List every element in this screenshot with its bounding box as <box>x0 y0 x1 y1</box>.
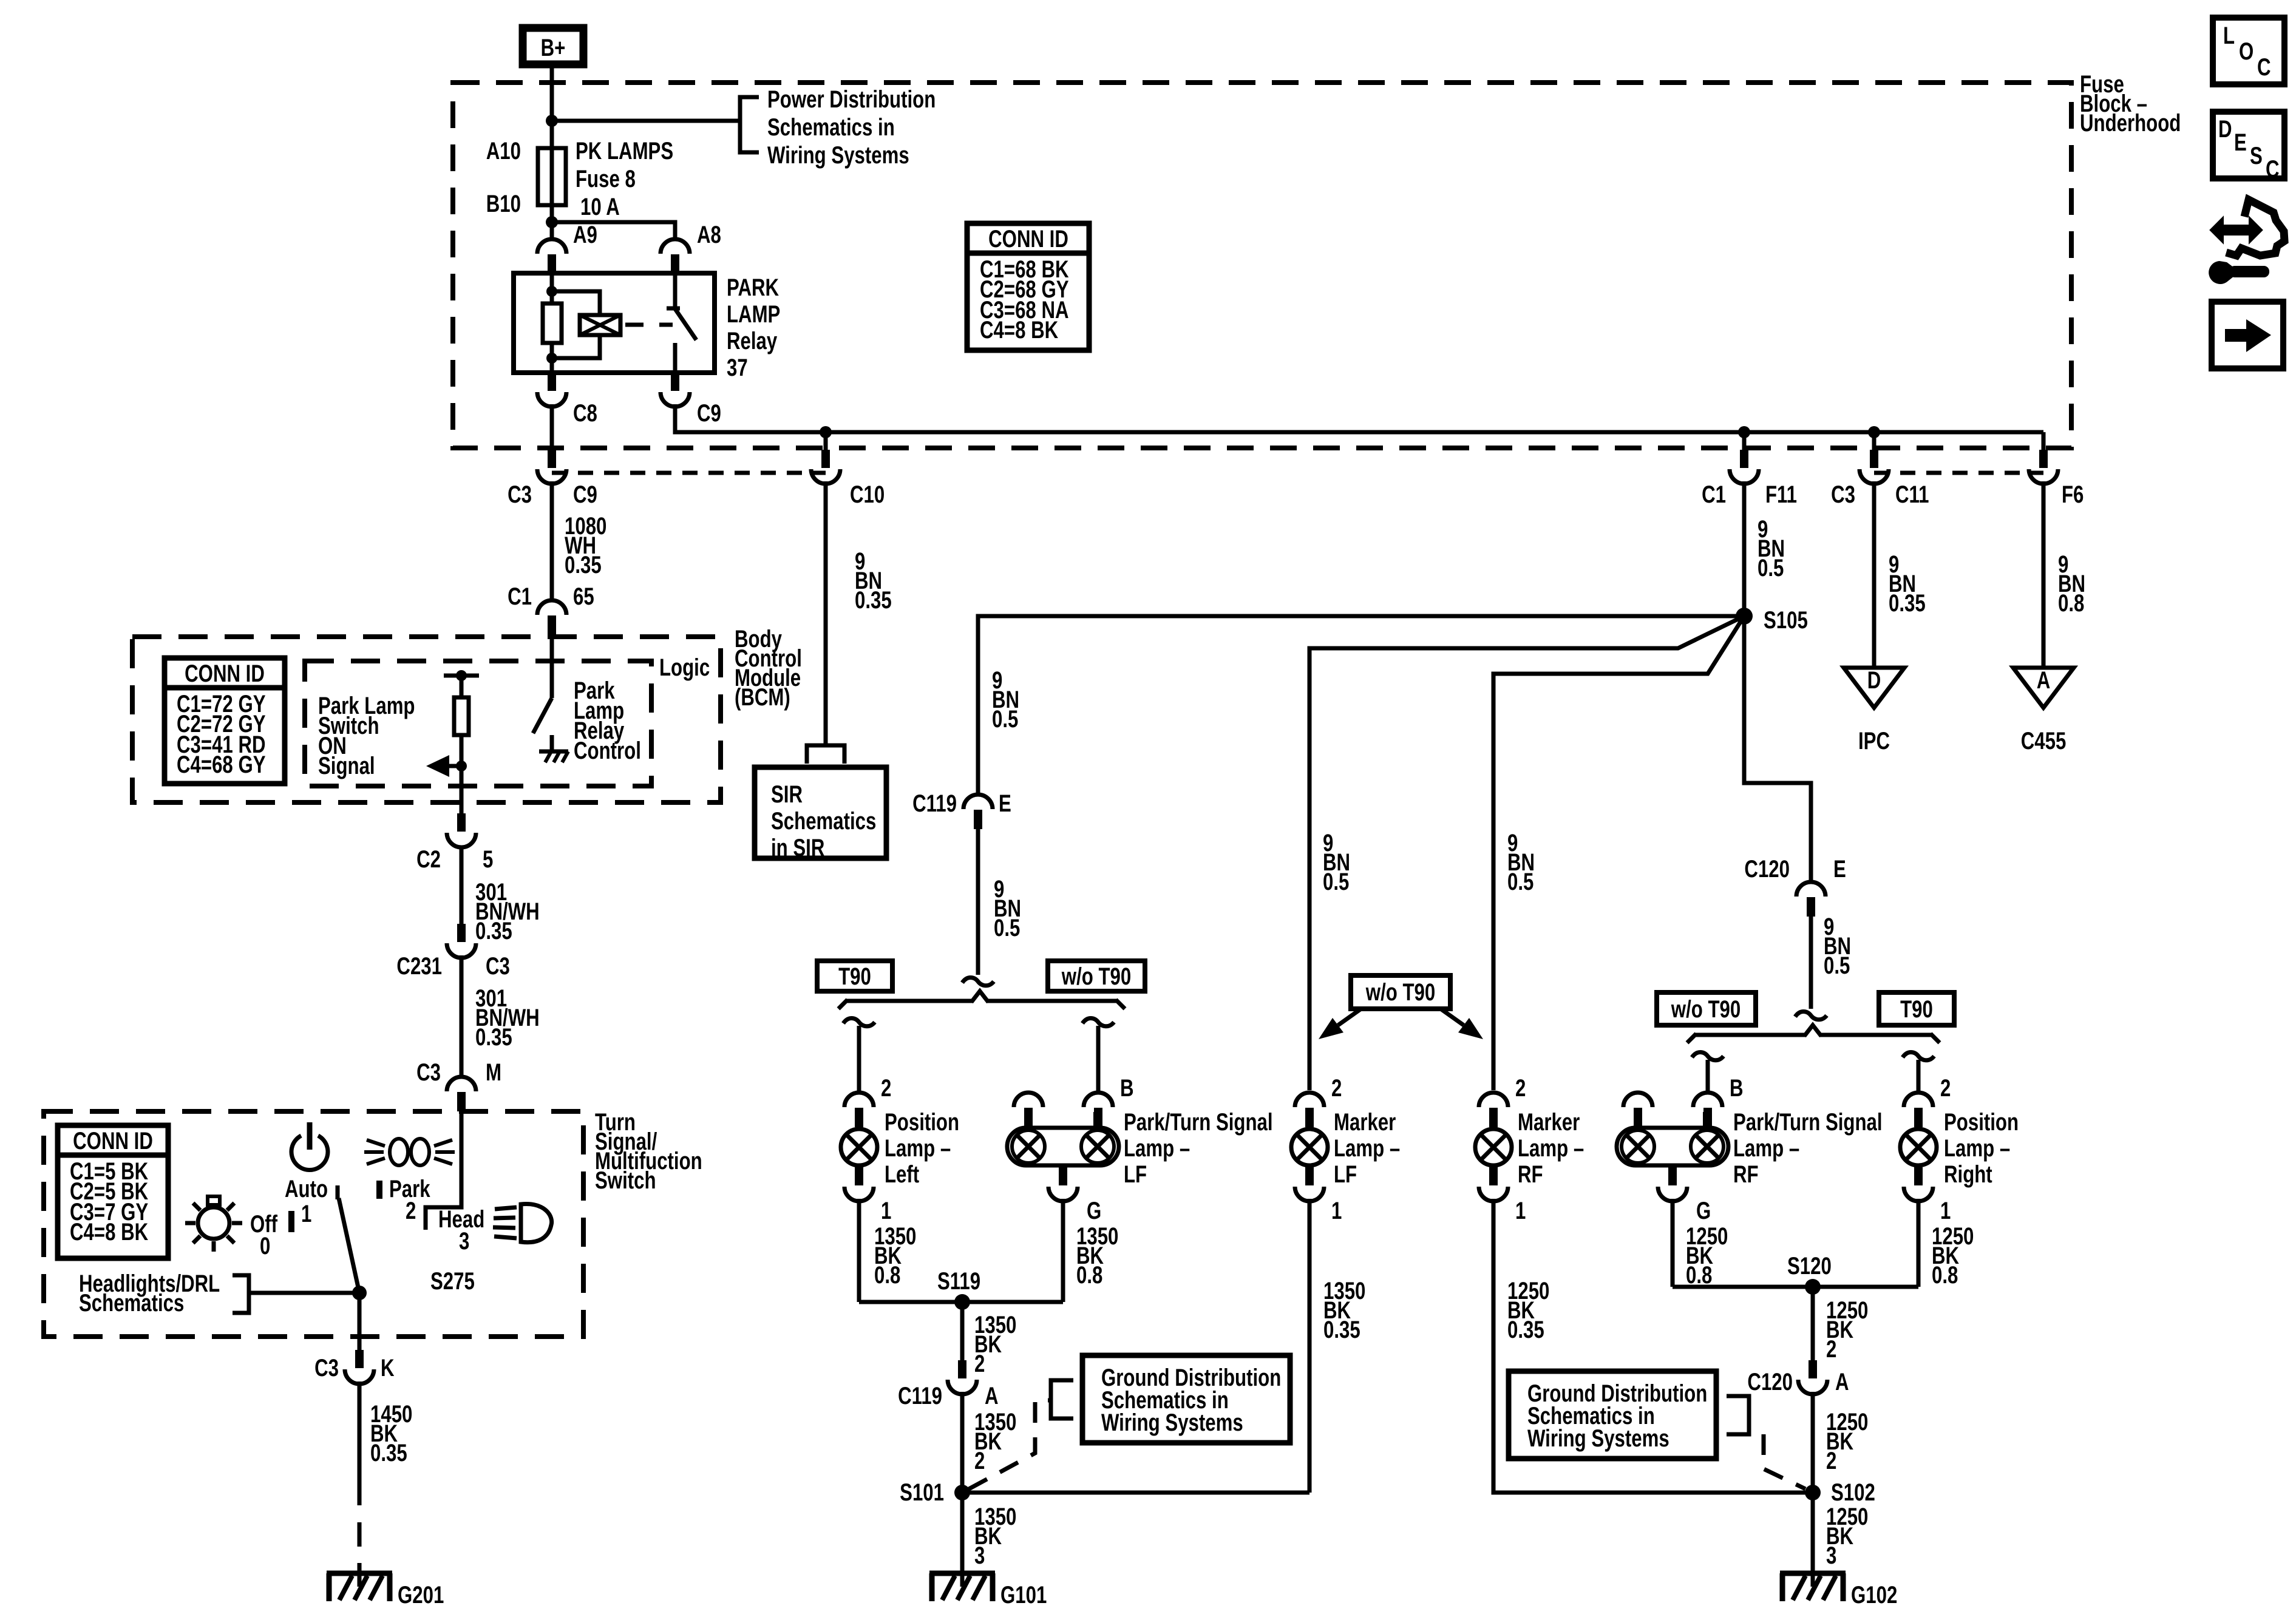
svg-text:0.35: 0.35 <box>1889 589 1926 617</box>
conn id table BCM <box>165 658 285 784</box>
relay PARK LAMP Relay 37 box <box>514 273 715 373</box>
connector F6 <box>2029 450 2058 484</box>
svg-text:3: 3 <box>459 1227 469 1255</box>
BCM pullup tee bar <box>444 674 479 678</box>
svg-text:SIR: SIR <box>771 781 803 808</box>
svg-text:Park/Turn Signal: Park/Turn Signal <box>1124 1108 1273 1136</box>
svg-text:Position: Position <box>1944 1108 2019 1136</box>
svg-text:C3: C3 <box>508 481 532 508</box>
harness branch left group <box>971 991 988 1002</box>
svg-text:C120: C120 <box>1747 1368 1793 1395</box>
svg-text:2: 2 <box>881 1074 891 1102</box>
svg-text:Lamp –: Lamp – <box>1518 1134 1584 1162</box>
harness split symbol <box>962 978 994 986</box>
fuse PK LAMPS Fuse 8 10A <box>538 148 566 205</box>
wire marker LF to ground bus <box>1308 1199 1312 1493</box>
connector position lamp left pin1 <box>844 1167 874 1201</box>
wire drop to position lamp left <box>857 1026 861 1093</box>
svg-text:C455: C455 <box>2021 727 2067 754</box>
svg-text:IPC: IPC <box>1858 727 1890 754</box>
svg-text:A10: A10 <box>486 137 521 164</box>
wire label 9 BN 0.35 <box>1889 551 1926 617</box>
bracket SIR reference <box>807 745 844 764</box>
svg-text:2: 2 <box>1826 1447 1836 1474</box>
wire relay solenoid loop <box>552 291 600 358</box>
connector C1-65 into BCM <box>537 600 566 635</box>
svg-text:0.8: 0.8 <box>1686 1261 1712 1289</box>
svg-text:2: 2 <box>1826 1335 1836 1363</box>
wire lamp to S119 <box>857 1199 861 1302</box>
node C10 tap <box>820 426 832 438</box>
svg-text:L: L <box>2223 22 2235 49</box>
connector park turn LF unused pin <box>1014 1093 1043 1127</box>
svg-text:Wiring Systems: Wiring Systems <box>1527 1425 1669 1452</box>
svg-text:A8: A8 <box>697 221 721 248</box>
box arrow next <box>2212 302 2283 368</box>
svg-text:A9: A9 <box>573 221 597 248</box>
wire C119A to S101 <box>960 1392 965 1493</box>
wire label 9 BN 0.5 marker RF drop <box>1507 829 1535 895</box>
lamp position left <box>841 1129 877 1165</box>
splice S120 <box>1805 1279 1821 1295</box>
wire C120A to S102 <box>1811 1392 1815 1493</box>
svg-text:F11: F11 <box>1765 481 1797 508</box>
arrow park lamp signal <box>426 755 461 777</box>
wire fuse to relay <box>550 205 554 239</box>
branch end tick left <box>838 1000 847 1009</box>
svg-text:10 A: 10 A <box>580 193 620 220</box>
svg-text:0.5: 0.5 <box>992 705 1018 733</box>
connector park turn RF unused pin <box>1623 1093 1652 1127</box>
dual lamp park turn RF <box>1617 1112 1728 1181</box>
harness split symbol right <box>1795 1012 1827 1020</box>
wire label 9 BN 0.5 <box>1758 515 1785 581</box>
label Position Lamp Left <box>885 1108 959 1188</box>
wire bus corner down to F6 <box>2042 432 2046 450</box>
wire to C2 connector <box>460 766 464 815</box>
svg-text:Marker: Marker <box>1518 1108 1580 1136</box>
wire C120E to split <box>1809 917 1813 1009</box>
dashed link S101 to ground reference <box>969 1400 1050 1489</box>
connector marker LF pin1 <box>1295 1167 1324 1201</box>
label Park 2 <box>379 1175 430 1224</box>
label Head 3 <box>438 1205 484 1255</box>
connector C3-C11 <box>1860 450 1889 484</box>
relay coil resistor <box>543 273 562 373</box>
box w/o T90 right <box>1657 992 1756 1025</box>
svg-text:S: S <box>2250 142 2263 169</box>
svg-text:0.8: 0.8 <box>874 1261 900 1289</box>
svg-text:2: 2 <box>974 1350 985 1377</box>
BCM driver switch <box>533 635 552 751</box>
svg-text:w/o T90: w/o T90 <box>1671 995 1741 1023</box>
wire S105 down to C120 step <box>1744 616 1811 882</box>
switch blade multifunction <box>338 1185 359 1293</box>
label Park Lamp Switch ON Signal <box>318 692 415 779</box>
svg-text:RF: RF <box>1518 1161 1543 1188</box>
wire label 9 BN 0.5 below C120E <box>1824 913 1851 979</box>
node arrow junction <box>456 761 467 771</box>
svg-text:C4=8 BK: C4=8 BK <box>70 1218 148 1246</box>
svg-text:G: G <box>1087 1197 1101 1224</box>
node C1-F11 tap <box>1738 426 1750 438</box>
drop crook position lamp left <box>843 1019 875 1026</box>
wire C10 to SIR bracket <box>824 481 828 745</box>
svg-text:C9: C9 <box>697 399 721 427</box>
connector park turn LF pinB <box>1084 1093 1113 1127</box>
wire drop to position right <box>1917 1060 1921 1093</box>
wire label 1350 BK 0.8 <box>874 1222 916 1289</box>
svg-text:Fuse 8: Fuse 8 <box>576 165 636 192</box>
svg-text:0.5: 0.5 <box>994 914 1020 941</box>
connector park turn LF pinG <box>1048 1167 1078 1201</box>
svg-text:S105: S105 <box>1764 606 1808 634</box>
wire bracket to S275 node <box>249 1291 359 1295</box>
label Position Lamp Right <box>1944 1108 2019 1188</box>
label Marker Lamp RF <box>1518 1108 1584 1188</box>
wire marker RF to S102 bus <box>1493 1199 1813 1493</box>
svg-text:2: 2 <box>1940 1074 1951 1102</box>
wire label 1250 BK 0.8 <box>1686 1222 1728 1289</box>
svg-text:w/o T90: w/o T90 <box>1061 963 1131 990</box>
connector C2-5 <box>447 813 476 847</box>
svg-text:O: O <box>2239 38 2254 65</box>
label Auto 1 <box>285 1175 328 1232</box>
label Park Turn Signal Lamp RF <box>1733 1108 1883 1188</box>
label Power Distribution Schematics in Wiring Systems <box>767 86 936 169</box>
wire to power distribution reference <box>552 119 740 123</box>
wire label 301 BN WH 0.35 <box>475 878 540 944</box>
svg-text:B10: B10 <box>486 190 521 217</box>
node C3-C11 tap <box>1868 426 1880 438</box>
bracket ground reference left <box>1051 1380 1073 1419</box>
box T90 right <box>1879 992 1954 1025</box>
wire park turn RF to S120 <box>1671 1199 1675 1287</box>
relay solenoid box with X <box>580 315 620 335</box>
connector C3-M <box>447 1077 476 1111</box>
splice S119 <box>954 1294 970 1310</box>
branch end tick left <box>1687 1034 1696 1043</box>
svg-text:RF: RF <box>1733 1161 1759 1188</box>
wire position right to S120 <box>1917 1199 1921 1287</box>
svg-text:3: 3 <box>974 1542 985 1569</box>
conn id table switch <box>58 1125 168 1258</box>
connector C119-E <box>963 795 993 829</box>
svg-text:G: G <box>1696 1197 1711 1224</box>
wire label 1350 BK 2 <box>974 1408 1016 1474</box>
icon off lamp <box>185 1196 242 1252</box>
svg-text:M: M <box>486 1059 501 1086</box>
svg-text:CONN ID: CONN ID <box>988 225 1068 253</box>
wire label 1250 BK 3 <box>1826 1503 1868 1569</box>
svg-text:1: 1 <box>301 1200 311 1227</box>
wire label 1450 BK 0.35 <box>370 1400 412 1466</box>
svg-text:F6: F6 <box>2062 481 2084 508</box>
svg-text:B+: B+ <box>541 34 566 61</box>
svg-text:0.5: 0.5 <box>1323 868 1349 895</box>
svg-text:S119: S119 <box>937 1267 980 1295</box>
box Ground Distribution right <box>1509 1371 1716 1459</box>
wire S119 to C119A <box>960 1302 965 1360</box>
svg-text:0.8: 0.8 <box>1932 1261 1958 1289</box>
connector position right pin2 <box>1904 1093 1933 1127</box>
wire S120 to C120A <box>1811 1287 1815 1360</box>
logic dashed box <box>305 661 651 786</box>
wire S102 to G102 <box>1811 1493 1815 1587</box>
wire branch to A8 <box>552 222 675 239</box>
wire label 1350 BK 3 <box>974 1503 1016 1569</box>
icon headlamp <box>493 1204 552 1242</box>
wire bus to C3-C11 <box>1872 432 1877 450</box>
svg-text:Marker: Marker <box>1334 1108 1396 1136</box>
BCM pullup resistor <box>454 676 469 766</box>
svg-text:Underhood: Underhood <box>2080 109 2181 137</box>
box Ground Distribution left <box>1082 1355 1290 1443</box>
svg-text:0.8: 0.8 <box>2058 589 2084 617</box>
svg-text:Left: Left <box>885 1161 919 1188</box>
svg-text:Position: Position <box>885 1108 959 1136</box>
wire label 1250 BK 0.8 <box>1932 1222 1974 1289</box>
svg-text:C8: C8 <box>573 399 597 427</box>
label Fuse Block Underhood <box>2080 70 2181 137</box>
wire S105 diagonal to marker RF drop <box>1493 616 1744 1090</box>
label PK LAMPS Fuse 8 10 A <box>576 137 673 220</box>
box w/o T90 markers <box>1351 975 1450 1009</box>
wire C3K to G201 partial dashed <box>358 1381 362 1587</box>
icon park lamps <box>364 1139 455 1165</box>
svg-text:1: 1 <box>1515 1197 1526 1224</box>
label PARK LAMP Relay 37 <box>727 274 780 381</box>
svg-text:C10: C10 <box>850 481 885 508</box>
wire F6 to C455 triangle <box>2042 481 2046 668</box>
wire label 1250 BK 0.35 <box>1507 1277 1549 1343</box>
relay switch <box>667 273 696 373</box>
svg-text:C11: C11 <box>1895 481 1929 508</box>
svg-text:2: 2 <box>1331 1074 1342 1102</box>
svg-text:E: E <box>2234 129 2247 156</box>
triangle destination D IPC <box>1844 666 1904 754</box>
icon auto power <box>291 1122 328 1170</box>
svg-text:LF: LF <box>1124 1161 1147 1188</box>
svg-text:C120: C120 <box>1744 855 1790 883</box>
svg-text:K: K <box>381 1354 395 1381</box>
svg-text:Lamp –: Lamp – <box>1334 1134 1400 1162</box>
lamp position right <box>1900 1129 1937 1165</box>
node junction below B+ <box>546 115 558 127</box>
label Turn Signal Multifuction Switch <box>595 1108 702 1194</box>
svg-text:T90: T90 <box>1900 995 1933 1023</box>
wire label 1250 BK 2 <box>1826 1297 1868 1363</box>
connector position right pin1 <box>1904 1167 1933 1201</box>
svg-text:0: 0 <box>260 1232 270 1259</box>
svg-text:3: 3 <box>1826 1542 1836 1569</box>
drop crook park turn RF <box>1692 1053 1724 1060</box>
svg-text:S275: S275 <box>430 1267 475 1295</box>
svg-text:0.35: 0.35 <box>370 1439 407 1466</box>
wire C231 to C3M <box>460 955 464 1077</box>
svg-text:S120: S120 <box>1787 1252 1832 1280</box>
svg-text:S102: S102 <box>1831 1479 1875 1506</box>
svg-text:Switch: Switch <box>595 1167 656 1194</box>
svg-text:2: 2 <box>406 1197 416 1224</box>
dashed relay actuation link <box>625 323 673 327</box>
wire C1F11 to S105 <box>1742 481 1747 616</box>
connector C120-E <box>1796 882 1826 917</box>
wire C2 to C231 <box>460 846 464 942</box>
svg-text:0.5: 0.5 <box>1507 868 1533 895</box>
B+ battery feed box <box>523 28 583 64</box>
svg-text:1: 1 <box>1331 1197 1342 1224</box>
svg-text:Lamp –: Lamp – <box>885 1134 951 1162</box>
svg-text:C4=68 GY: C4=68 GY <box>177 751 266 778</box>
svg-text:0.35: 0.35 <box>1507 1316 1544 1343</box>
box T90 <box>817 961 892 991</box>
wire label 9 BN 0.35 <box>855 547 892 614</box>
connector C3-C9 <box>537 450 566 484</box>
svg-text:PARK: PARK <box>727 274 779 301</box>
svg-text:1: 1 <box>881 1197 891 1224</box>
svg-text:LAMP: LAMP <box>727 300 780 328</box>
svg-text:Park/Turn Signal: Park/Turn Signal <box>1733 1108 1883 1136</box>
svg-text:Schematics: Schematics <box>79 1289 184 1317</box>
svg-text:C231: C231 <box>396 952 442 980</box>
svg-text:0.5: 0.5 <box>1758 554 1784 581</box>
bracket power distribution reference <box>740 97 759 152</box>
dotted connector plane line right <box>1874 471 2043 475</box>
wire C3C11 to IPC triangle <box>1872 481 1877 668</box>
branch end tick right <box>1931 1034 1940 1043</box>
connector C231-C3 <box>447 924 476 958</box>
connector marker LF pin2 <box>1295 1093 1324 1127</box>
ground G102 <box>1780 1573 1846 1601</box>
ground G101 <box>929 1573 995 1601</box>
svg-text:0.35: 0.35 <box>1323 1316 1360 1343</box>
wire label 1080 WH 0.35 <box>565 512 606 578</box>
label Park Turn Signal Lamp LF <box>1124 1108 1273 1188</box>
svg-text:CONN ID: CONN ID <box>73 1127 153 1154</box>
svg-text:C9: C9 <box>573 481 597 508</box>
multifunction switch dashed box <box>44 1111 583 1337</box>
conn id table fuse block <box>967 223 1089 350</box>
svg-text:in SIR: in SIR <box>771 834 824 861</box>
connector A9 <box>537 239 566 274</box>
svg-text:C119: C119 <box>898 1382 942 1409</box>
splice S101 <box>954 1485 970 1500</box>
lamp marker RF <box>1475 1129 1512 1165</box>
drop crook position right <box>1903 1053 1934 1060</box>
box w/o T90 <box>1048 961 1145 991</box>
wire C119E to T90 split <box>976 829 980 975</box>
dashed link to S102 <box>1764 1434 1805 1489</box>
svg-text:Lamp –: Lamp – <box>1124 1134 1190 1162</box>
svg-text:C3: C3 <box>1831 481 1855 508</box>
node S275 <box>352 1286 367 1300</box>
connector C10 <box>811 450 840 484</box>
svg-text:Lamp –: Lamp – <box>1733 1134 1799 1162</box>
svg-text:D: D <box>2218 115 2232 143</box>
svg-text:Relay: Relay <box>727 327 777 354</box>
svg-text:LF: LF <box>1334 1161 1357 1188</box>
svg-text:G101: G101 <box>1000 1581 1047 1609</box>
svg-text:C3: C3 <box>416 1059 441 1086</box>
wire S105 diagonal to marker LF drop <box>1309 616 1744 1090</box>
svg-text:C119: C119 <box>912 790 957 817</box>
node below fuse <box>546 216 558 228</box>
svg-text:Wiring Systems: Wiring Systems <box>1101 1409 1243 1436</box>
connector C1-F11 <box>1730 450 1759 484</box>
ground G201 <box>327 1573 392 1601</box>
svg-text:CONN ID: CONN ID <box>185 660 265 687</box>
svg-text:G201: G201 <box>398 1581 444 1609</box>
svg-text:D: D <box>1867 666 1881 694</box>
wire label 1350 BK 0.35 <box>1323 1277 1365 1343</box>
svg-text:Schematics: Schematics <box>771 807 876 835</box>
svg-text:C: C <box>2266 155 2280 183</box>
svg-text:C1: C1 <box>1702 481 1726 508</box>
svg-text:Signal: Signal <box>318 752 375 779</box>
drop crook park turn LF <box>1082 1019 1114 1026</box>
svg-text:E: E <box>999 790 1011 817</box>
svg-text:0.8: 0.8 <box>1076 1261 1102 1289</box>
wire bus to C1-F11 <box>1742 432 1747 450</box>
splice bus S120 <box>1673 1285 1918 1289</box>
svg-text:w/o T90: w/o T90 <box>1365 978 1435 1006</box>
wire label 9 BN 0.5 below C119E <box>994 875 1021 941</box>
svg-text:0.35: 0.35 <box>475 1023 512 1051</box>
connector C120-A <box>1798 1360 1827 1394</box>
svg-text:A: A <box>2037 666 2051 694</box>
svg-text:Schematics in: Schematics in <box>767 114 895 141</box>
wire C9 to bus <box>675 404 2043 432</box>
svg-text:Lamp –: Lamp – <box>1944 1134 2010 1162</box>
connector C9 <box>661 373 690 407</box>
svg-text:0.35: 0.35 <box>565 551 602 578</box>
svg-text:G102: G102 <box>1851 1581 1897 1609</box>
connector marker RF pin1 <box>1479 1167 1508 1201</box>
wire B+ to fuse <box>550 64 554 148</box>
svg-text:0.35: 0.35 <box>855 586 892 614</box>
wire drop to park turn RF <box>1706 1060 1710 1093</box>
svg-text:T90: T90 <box>838 963 871 990</box>
svg-text:C: C <box>2257 53 2271 81</box>
connector park turn RF pinB <box>1693 1093 1722 1127</box>
BCM dashed box <box>132 637 721 802</box>
svg-text:1: 1 <box>1940 1197 1951 1224</box>
wire label 1350 BK 0.8 <box>1076 1222 1118 1289</box>
label Marker Lamp LF <box>1334 1108 1400 1188</box>
wire C3C9 to C1 <box>550 481 554 600</box>
svg-text:Right: Right <box>1944 1161 1992 1188</box>
triangle destination A C455 <box>2013 666 2074 754</box>
svg-text:Control: Control <box>574 737 641 764</box>
svg-text:Power Distribution: Power Distribution <box>767 86 936 113</box>
box LOC <box>2213 18 2284 84</box>
wire S105 to C119 drop <box>978 616 1744 795</box>
svg-text:PK LAMPS: PK LAMPS <box>576 137 673 164</box>
arrow to marker LF <box>1319 1009 1361 1039</box>
splice bus S119 <box>859 1300 1063 1304</box>
node relay coil top <box>546 286 557 297</box>
wire label 1350 BK 2 <box>974 1311 1016 1377</box>
svg-text:C1: C1 <box>508 583 532 610</box>
wire label 9 BN 0.5 marker LF drop <box>1323 829 1350 895</box>
harness branch right group <box>1804 1025 1821 1036</box>
wire label 301 BN WH 0.35 <box>475 985 540 1051</box>
wire label 1250 BK 2 <box>1826 1408 1868 1474</box>
box DESC <box>2213 112 2284 183</box>
svg-text:B: B <box>1120 1074 1134 1102</box>
svg-text:Logic: Logic <box>659 654 710 681</box>
